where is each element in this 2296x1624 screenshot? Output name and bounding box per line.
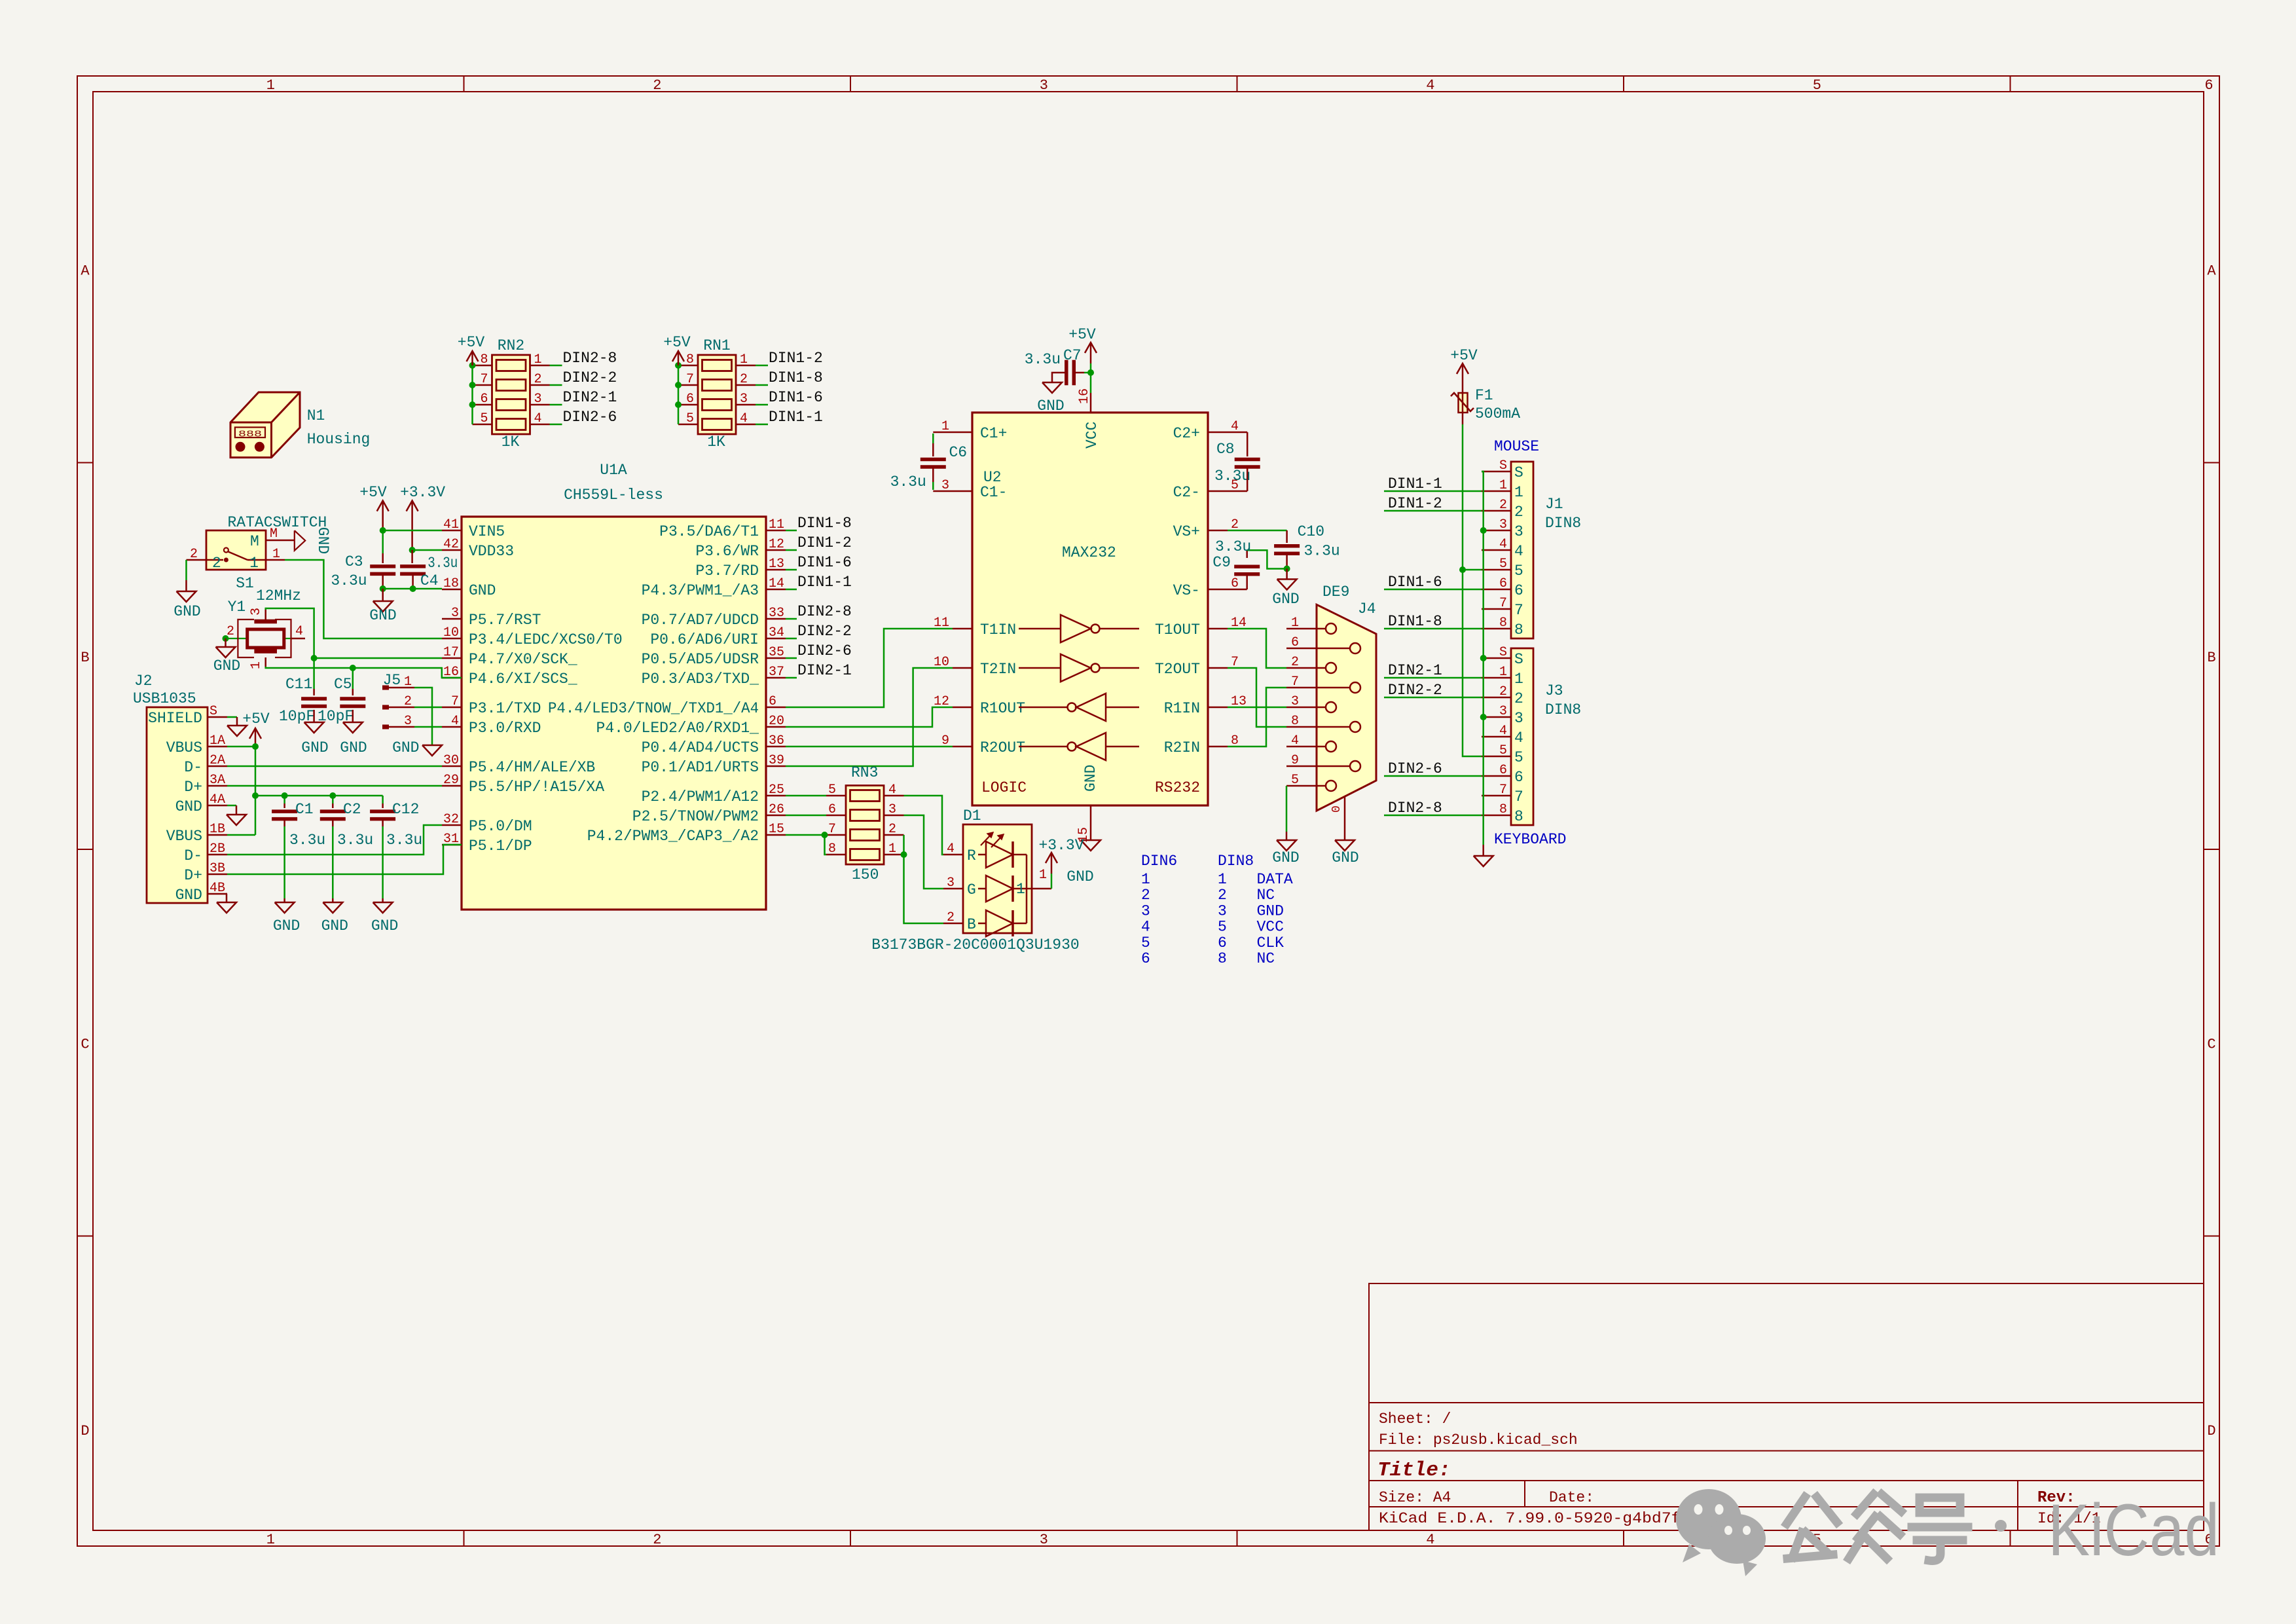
svg-text:P4.6/XI/SCS_: P4.6/XI/SCS_ [469, 671, 577, 688]
wire +5V cap rail [255, 795, 383, 797]
svg-text:2: 2 [1291, 655, 1299, 670]
U1A pin 7 P3.1/TXD [442, 707, 462, 709]
svg-text:5: 5 [1499, 743, 1507, 758]
svg-text:10: 10 [443, 625, 459, 640]
svg-text:34: 34 [769, 625, 784, 640]
wire RN1 pin3 to label DIN1-6 [756, 404, 768, 406]
svg-text:3: 3 [888, 802, 896, 817]
U2 pin 6 VS- [1208, 589, 1228, 591]
U1A pin 6 P4.4/LED3/TNOW_/TXD1_/A4 [766, 707, 786, 709]
power +5V at RN2 [471, 351, 473, 365]
junction shield J3 pin3 [1480, 714, 1487, 720]
svg-text:C: C [81, 1036, 89, 1052]
svg-text:P5.5/HP/!A15/XA: P5.5/HP/!A15/XA [469, 779, 604, 796]
svg-text:150: 150 [852, 866, 879, 883]
wire Y1 pin1 to U1A pin16 [266, 667, 462, 678]
svg-text:S: S [210, 704, 217, 719]
svg-text:5: 5 [1218, 919, 1227, 936]
svg-text:9: 9 [1291, 753, 1299, 768]
housing N1 display window [235, 428, 265, 438]
svg-text:RS232: RS232 [1155, 779, 1200, 796]
wire C2 to GND [332, 819, 334, 826]
svg-text:1: 1 [1514, 671, 1523, 688]
D1 pin 1 stub [1032, 888, 1051, 890]
svg-text:P0.7/AD7/UDCD: P0.7/AD7/UDCD [642, 612, 759, 629]
J2 pin 3B D+ [208, 874, 227, 876]
J1 pin S [1482, 471, 1511, 473]
svg-text:5: 5 [1499, 557, 1507, 572]
RN2 right pins 1-4 [530, 365, 550, 367]
svg-text:DIN2-1: DIN2-1 [797, 662, 852, 679]
capacitor C11 [301, 697, 327, 701]
svg-text:D+: D+ [184, 779, 202, 796]
wire U1A to label DIN1-2 [786, 549, 797, 551]
svg-text:3.3u: 3.3u [331, 572, 367, 589]
svg-text:3: 3 [249, 608, 264, 616]
svg-text:7: 7 [1514, 602, 1523, 619]
svg-text:GND: GND [314, 527, 331, 554]
J1 pin 7 [1482, 608, 1511, 610]
housing N1 button right [255, 442, 264, 452]
J3 pin 6 [1482, 775, 1511, 777]
svg-text:8: 8 [1514, 621, 1523, 638]
J5 pin 2 [382, 705, 389, 710]
svg-text:41: 41 [443, 517, 459, 532]
svg-text:4: 4 [740, 411, 748, 426]
wire C1 to GND [283, 819, 285, 826]
svg-text:33: 33 [769, 606, 784, 621]
svg-text:36: 36 [769, 733, 784, 748]
svg-text:3: 3 [1499, 517, 1507, 532]
ground at S1 pin2 [177, 591, 196, 602]
svg-text:3.3u: 3.3u [386, 832, 422, 849]
svg-text:1: 1 [1499, 478, 1507, 493]
svg-text:GND: GND [340, 739, 367, 756]
J3 pin 4 [1482, 736, 1511, 738]
svg-text:VS-: VS- [1173, 582, 1200, 599]
crystal Y1 pin3 stub [264, 610, 266, 619]
svg-text:C3: C3 [345, 553, 363, 570]
U1A pin 18 GND [442, 589, 462, 591]
U1A pin 17 P4.7/X0/SCK_ [442, 657, 462, 659]
svg-text:3: 3 [1218, 902, 1227, 919]
wire U1A to label DIN1-1 [786, 589, 797, 591]
svg-text:DIN2-6: DIN2-6 [1388, 760, 1442, 777]
RN3 right pin 2 [884, 834, 904, 836]
J4 pin 2 [1286, 667, 1326, 669]
svg-text:J3: J3 [1545, 682, 1563, 699]
svg-text:C1-: C1- [980, 484, 1007, 501]
svg-text:P0.6/AD6/URI: P0.6/AD6/URI [650, 631, 759, 648]
ic U1A body [462, 517, 766, 910]
svg-text:GND: GND [1272, 591, 1299, 608]
wire C7 to GND [1052, 373, 1065, 382]
D1 cathode bus [1026, 855, 1028, 923]
svg-text:J2: J2 [134, 673, 153, 690]
J4 pin 9 [1286, 766, 1350, 767]
svg-text:DIN1-8: DIN1-8 [797, 515, 852, 532]
svg-text:6: 6 [828, 802, 836, 817]
wire U1A pin6 to U2 T1IN [786, 629, 953, 707]
wire +5V to VBUS pins [255, 747, 257, 835]
D1 pin 2 B stub [943, 923, 963, 925]
svg-text:R2IN: R2IN [1164, 739, 1200, 756]
watermark dot [1995, 1520, 2007, 1532]
svg-text:1A: 1A [210, 733, 225, 748]
svg-text:2: 2 [1514, 504, 1523, 521]
ground at shield bus [1474, 856, 1493, 866]
svg-text:P0.3/AD3/TXD_: P0.3/AD3/TXD_ [642, 671, 759, 688]
power +5V above U1A [382, 501, 384, 530]
U1A pin 25 P2.4/PWM1/A12 [766, 795, 786, 797]
J2 pin 4B GND [208, 893, 227, 895]
svg-text:VBUS: VBUS [166, 828, 202, 845]
J1 pin 4 [1482, 549, 1511, 551]
U2 pin 4 C2+ [1208, 432, 1228, 434]
wire U1A pin26 to RN3 pin6 [786, 815, 826, 817]
U2 pin 12 R1OUT [953, 707, 972, 709]
svg-text:3: 3 [451, 606, 459, 621]
svg-text:5: 5 [1141, 934, 1150, 951]
svg-text:D-: D- [184, 759, 202, 776]
svg-text:CH559L-less: CH559L-less [564, 487, 663, 504]
svg-text:3.3u: 3.3u [1304, 543, 1340, 560]
J5 pin 3 [382, 725, 389, 729]
power +5V at F1 [1462, 363, 1464, 380]
ground at C12 [373, 902, 393, 913]
svg-text:GND: GND [1332, 849, 1358, 866]
junction cap rail [252, 792, 259, 799]
svg-text:VDD33: VDD33 [469, 543, 514, 560]
svg-text:GND: GND [321, 917, 348, 934]
svg-text:P5.7/RST: P5.7/RST [469, 612, 541, 629]
svg-text:2: 2 [404, 694, 412, 709]
svg-text:1: 1 [888, 841, 896, 857]
svg-text:6: 6 [1499, 763, 1507, 778]
J1 pin 2 [1482, 510, 1511, 512]
svg-text:1: 1 [1514, 484, 1523, 501]
svg-text:2: 2 [227, 624, 234, 639]
svg-text:13: 13 [769, 557, 784, 572]
J2 pin S SHIELD [208, 716, 227, 718]
wire XI to C5 [352, 668, 354, 689]
capacitor C5 [340, 697, 365, 701]
wire C4 top lead [411, 550, 413, 563]
svg-text:2: 2 [212, 555, 221, 572]
svg-text:20: 20 [769, 714, 784, 729]
J1 pin 8 [1482, 628, 1511, 630]
svg-text:3: 3 [404, 714, 412, 729]
svg-text:2: 2 [190, 547, 198, 562]
svg-text:7: 7 [1291, 674, 1299, 690]
svg-text:B: B [2207, 650, 2215, 666]
svg-text:DIN1-6: DIN1-6 [797, 554, 852, 571]
J3 pin 1 [1482, 677, 1511, 679]
svg-text:D: D [2207, 1423, 2215, 1439]
RN1 +5V power bus wire [678, 365, 680, 424]
svg-text:P3.6/WR: P3.6/WR [695, 543, 759, 560]
svg-text:1: 1 [266, 1532, 275, 1548]
ground at C11 [304, 722, 324, 733]
crystal Y1 pin1 stub [264, 657, 266, 667]
svg-text:GND: GND [175, 887, 202, 904]
svg-text:2: 2 [1218, 887, 1227, 904]
U1A pin 33 P0.7/AD7/UDCD [766, 618, 786, 620]
svg-text:DIN8: DIN8 [1218, 853, 1254, 870]
svg-text:37: 37 [769, 665, 784, 680]
wire J2 shield to GND [227, 716, 237, 718]
J4 pin 5 [1286, 785, 1326, 787]
svg-text:GND: GND [213, 657, 240, 674]
svg-text:DIN8: DIN8 [1545, 701, 1581, 718]
wire C3 GND stem [382, 589, 384, 601]
junction +5V at J1 pin5 [1459, 566, 1466, 573]
svg-text:P3.7/RD: P3.7/RD [695, 563, 759, 580]
svg-text:P2.4/PWM1/A12: P2.4/PWM1/A12 [642, 788, 759, 805]
svg-text:VS+: VS+ [1173, 523, 1200, 540]
J4 pin 8 [1286, 726, 1350, 728]
svg-text:P5.1/DP: P5.1/DP [469, 838, 532, 855]
U2 pin 1 C1+ [953, 432, 972, 434]
wire label DIN2-1 to DIN8 [1384, 677, 1482, 679]
svg-text:GND: GND [301, 739, 328, 756]
svg-text:M: M [250, 533, 259, 550]
svg-text:GND: GND [369, 607, 396, 624]
U2 pin 15 GND [1090, 805, 1092, 825]
junction VDD33 [409, 547, 416, 553]
watermark text gongzhonghao [1787, 1494, 1968, 1561]
svg-text:GND: GND [371, 917, 398, 934]
svg-text:P0.1/AD1/URTS: P0.1/AD1/URTS [642, 759, 759, 776]
svg-text:2: 2 [534, 372, 542, 387]
svg-text:25: 25 [769, 783, 784, 798]
svg-text:4: 4 [1514, 543, 1523, 560]
wire U2 T1OUT to J4 pin2 [1228, 629, 1286, 668]
junction VBUS 1A [252, 743, 259, 750]
svg-text:26: 26 [769, 802, 784, 817]
J4 pin 3 [1286, 707, 1326, 709]
svg-text:4: 4 [888, 783, 896, 798]
capacitor C1 [272, 809, 297, 813]
switch S1 contacts [224, 548, 228, 553]
svg-text:MOUSE: MOUSE [1494, 438, 1539, 455]
U1A pin 14 P4.3/PWM1_/A3 [766, 589, 786, 591]
D1 pin 4 R stub [943, 854, 963, 856]
J1 pin 6 [1482, 589, 1511, 591]
svg-text:DIN1-2: DIN1-2 [797, 534, 852, 551]
svg-text:6: 6 [2204, 77, 2213, 94]
svg-text:4: 4 [1291, 733, 1299, 748]
capacitor C8 [1235, 458, 1260, 462]
svg-text:12MHz: 12MHz [256, 587, 301, 604]
svg-text:RN3: RN3 [851, 764, 878, 781]
capacitor C2 [320, 809, 346, 813]
svg-text:4: 4 [1499, 724, 1507, 739]
svg-text:2: 2 [1499, 498, 1507, 513]
svg-text:T2OUT: T2OUT [1155, 661, 1200, 678]
svg-text:VCC: VCC [1084, 422, 1101, 449]
ground at C2 [323, 902, 342, 913]
wire J5 pin1 to GND [414, 688, 432, 745]
wire U1A pin39 to U2 T2IN [786, 668, 953, 766]
U2 pin 3 C1- [953, 490, 972, 492]
J5 pin 1 [382, 686, 389, 690]
svg-text:3: 3 [1040, 77, 1048, 94]
U2 pin 13 R1IN [1208, 707, 1228, 709]
wire S1 pin1 to U1A pin10 [285, 560, 442, 638]
U2 buffer glyph at T row 1020 [1019, 667, 1061, 669]
watermark wechat icon [1676, 1489, 1766, 1576]
resistor network RN3 body [846, 786, 884, 865]
U1A pin 10 P3.4/LEDC/XCS0/T0 [442, 638, 462, 640]
svg-text:GND: GND [173, 603, 200, 620]
wire C6 to U2 pin3 [932, 467, 934, 482]
svg-text:4: 4 [451, 714, 459, 729]
svg-text:P4.3/PWM1_/A3: P4.3/PWM1_/A3 [642, 582, 759, 599]
U1A pin 31 P5.1/DP [442, 844, 462, 846]
RN3 left pin 6 [826, 815, 846, 817]
svg-text:C6: C6 [949, 444, 968, 461]
svg-text:7: 7 [451, 694, 459, 709]
svg-text:1: 1 [249, 555, 259, 572]
svg-text:P3.0/RXD: P3.0/RXD [469, 720, 541, 737]
svg-text:2: 2 [740, 372, 748, 387]
U1A pin 35 P0.5/AD5/UDSR [766, 657, 786, 659]
wire F1 to J1 J3 pin5 [1462, 413, 1464, 424]
J1 pin 3 [1482, 530, 1511, 532]
svg-text:N1: N1 [307, 407, 325, 424]
svg-text:+5V: +5V [663, 334, 691, 351]
svg-text:P4.2/PWM3_/CAP3_/A2: P4.2/PWM3_/CAP3_/A2 [587, 828, 759, 845]
svg-text:8: 8 [1218, 950, 1227, 967]
svg-text:NC: NC [1257, 887, 1275, 904]
svg-text:+5V: +5V [458, 334, 485, 351]
junction C9 C10 GND [1284, 566, 1290, 572]
svg-text:B: B [967, 916, 976, 933]
junction RN3 pins 7 8 [822, 832, 828, 838]
wire C5 to GND [352, 710, 354, 722]
svg-text:3A: 3A [210, 773, 225, 788]
svg-text:CLK: CLK [1257, 934, 1285, 951]
svg-text:DIN1-6: DIN1-6 [1388, 574, 1442, 591]
svg-text:C11: C11 [285, 676, 312, 693]
svg-text:C2: C2 [343, 801, 361, 818]
svg-text:C1+: C1+ [980, 425, 1007, 442]
svg-text:DIN2-1: DIN2-1 [563, 389, 617, 406]
J4 pin 1 [1286, 628, 1326, 630]
U1A pin 42 VDD33 [442, 549, 462, 551]
wire C10 to GND junction [1286, 553, 1288, 568]
U1A pin 39 P0.1/AD1/URTS [766, 766, 786, 767]
wire J2 2B D- to U1A pin32 [227, 825, 442, 855]
svg-text:4: 4 [1514, 729, 1523, 747]
led D1 body [963, 824, 1032, 933]
svg-text:7: 7 [1499, 596, 1507, 611]
housing N1 button left [236, 442, 246, 452]
U1A pin 29 P5.5/HP/!A15/XA [442, 785, 462, 787]
svg-text:C1: C1 [295, 801, 314, 818]
wire RN3 pin4 to D1 R [904, 796, 944, 855]
svg-text:3.3u: 3.3u [1215, 538, 1251, 555]
svg-text:S: S [1514, 651, 1523, 668]
svg-text:GND: GND [1082, 765, 1099, 792]
svg-text:GND: GND [1066, 868, 1093, 885]
wire U2 GND pin down [1090, 825, 1092, 840]
svg-text:R2OUT: R2OUT [980, 739, 1025, 756]
wire RN2 pin2 to label DIN2-2 [550, 384, 562, 386]
svg-text:KEYBOARD: KEYBOARD [1494, 831, 1566, 848]
svg-text:18: 18 [443, 576, 459, 591]
svg-text:DIN1-1: DIN1-1 [1388, 475, 1442, 492]
svg-text:GND: GND [392, 739, 419, 756]
fuse F1 [1462, 380, 1464, 393]
svg-text:6: 6 [1514, 769, 1523, 786]
svg-text:3.3u: 3.3u [337, 832, 373, 849]
svg-text:Title:: Title: [1377, 1459, 1451, 1482]
svg-text:30: 30 [443, 753, 459, 768]
svg-text:888: 888 [238, 430, 262, 440]
svg-text:8: 8 [1499, 616, 1507, 631]
U1A pin 41 VIN5 [442, 530, 462, 532]
svg-text:File: ps2usb.kicad_sch: File: ps2usb.kicad_sch [1379, 1431, 1578, 1449]
svg-text:2: 2 [947, 910, 955, 925]
J2 pin 1A VBUS [208, 746, 227, 748]
svg-text:4: 4 [1499, 537, 1507, 552]
power +3.3V above U1A [411, 501, 413, 550]
resistor network RN1 body [698, 355, 736, 434]
svg-text:14: 14 [769, 576, 784, 591]
svg-text:VIN5: VIN5 [469, 523, 505, 540]
svg-text:1: 1 [1141, 871, 1150, 888]
svg-text:D1: D1 [963, 807, 981, 824]
connector J1 body [1511, 462, 1533, 638]
wire C1 top lead [283, 796, 285, 803]
U2 pin 11 T1IN [953, 628, 972, 630]
svg-text:1: 1 [1039, 868, 1047, 883]
svg-text:P0.4/AD4/UCTS: P0.4/AD4/UCTS [642, 739, 759, 756]
svg-text:B: B [81, 650, 89, 666]
svg-text:J4: J4 [1358, 600, 1376, 618]
wire U2 pin4 to C8 [1228, 432, 1247, 434]
svg-text:4: 4 [947, 841, 955, 857]
svg-text:5: 5 [1813, 77, 1821, 94]
svg-text:7: 7 [686, 372, 694, 387]
ground at J4 shield [1335, 840, 1355, 851]
svg-text:1: 1 [404, 674, 412, 690]
svg-text:4A: 4A [210, 792, 225, 807]
ground at C3 C4 [373, 601, 393, 612]
svg-text:A: A [81, 263, 90, 279]
svg-text:29: 29 [443, 773, 459, 788]
svg-text:42: 42 [443, 537, 459, 552]
ground at U2 pin15 [1081, 840, 1101, 851]
svg-text:G: G [967, 881, 976, 898]
wire RN1 pin1 to label DIN1-2 [756, 365, 768, 367]
capacitor C6 [920, 458, 946, 462]
svg-text:S: S [1499, 458, 1507, 473]
svg-text:3: 3 [947, 876, 955, 891]
J1 pin 5 [1482, 569, 1511, 571]
S1 pin 2 stub [187, 559, 207, 561]
svg-text:F1: F1 [1475, 387, 1493, 404]
junction GND rail [380, 585, 386, 592]
ground at J4 pin5 [1277, 840, 1296, 851]
svg-text:8: 8 [828, 841, 836, 857]
svg-text:C5: C5 [334, 676, 352, 693]
svg-text:DIN1-8: DIN1-8 [769, 369, 823, 386]
svg-text:DIN2-2: DIN2-2 [1388, 682, 1442, 699]
wire U1A pin15 to RN3 pin7 pin8 [786, 834, 826, 836]
